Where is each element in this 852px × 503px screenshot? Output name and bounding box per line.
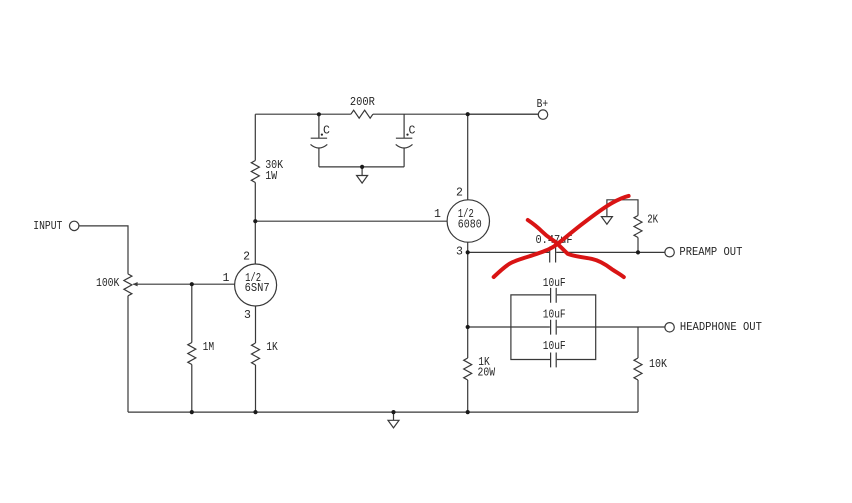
svg-text:3: 3 [244,309,251,322]
wire: top bus left segment [255,113,538,115]
red cross stroke A (lower-left to upper-right) [494,196,629,277]
resistor 1K 20W [464,358,472,380]
svg-text:B+: B+ [537,98,549,111]
svg-text:2: 2 [243,251,250,264]
svg-text:C: C [409,125,416,138]
wire: preamp out wire [468,251,665,253]
capacitor 0.47uF plates [550,247,556,263]
svg-text:2K: 2K [647,213,658,226]
wire: 2K top to ground corner [607,200,638,217]
resistor 30K 1W [251,161,259,183]
svg-text:10uF: 10uF [543,340,566,353]
resistor 1K (6SN7 cathode) [252,343,260,365]
svg-text:1: 1 [434,208,441,221]
node D (filter cap ground) [360,165,364,169]
tube U2 1/2 6080 [447,200,489,242]
resistor 200R [351,110,373,118]
svg-text:C: C [323,125,330,138]
capacitor bank box [511,295,596,360]
terminal B+ [538,110,547,119]
wire: INPUT to left vertical [79,226,128,274]
node J (1K bottom) [253,410,257,414]
node F (2K / preamp wire) [636,250,640,254]
svg-text:2: 2 [456,187,463,200]
node H (wiper / 1M top) [190,282,194,286]
node C (6SN7 plate / 30K) [253,219,257,223]
ground (bottom bus) [388,412,399,428]
svg-text:1M: 1M [203,341,215,354]
wire: cap bottom bus [319,166,404,168]
node I (1M bottom) [190,410,194,414]
wire: right cap C vertical leads [403,114,405,167]
red cross stroke B (upper-left to lower-right) [528,220,624,277]
wire: 6080 cathode down through nodes to 1K 20W [467,242,469,412]
potentiometer wiper arrow [133,282,138,286]
terminal INPUT [70,221,79,230]
wire: 6SN7 plate vertical with 30K [254,114,256,264]
wire: 6080 plate vertical [467,114,469,200]
svg-text:3: 3 [456,246,463,259]
capacitor C2 plates (flat + curved) [396,138,413,148]
wire: left cap C vertical leads [318,114,320,167]
svg-text:10uF: 10uF [543,277,566,290]
resistor 1M [188,343,196,365]
svg-text:20W: 20W [478,366,496,379]
wire: 1M resistor leads [191,284,193,412]
svg-text:1K: 1K [266,341,278,354]
node L (1K20W bottom) [466,410,470,414]
terminal PREAMP OUT [665,248,674,257]
wire: plate wire 6SN7 to 6080 pin1 [255,220,447,222]
capacitor 10uF top plates [551,288,557,303]
wire: bottom ground bus [128,411,638,413]
polarity mark right cap [406,134,408,136]
svg-text:HEADPHONE OUT: HEADPHONE OUT [680,321,762,334]
wire: 10K top lead [637,327,639,358]
wire: B+ lead [468,113,539,115]
wire: 10K bottom lead [637,380,639,412]
svg-text:1: 1 [223,272,230,285]
ground (2K top) [601,217,612,225]
resistor 10K [634,358,642,380]
node B (B+ / 6080 plate) [466,112,470,116]
wire: 6SN7 cathode to 1K to bus [255,306,257,412]
node E (6080 cathode) [466,250,470,254]
svg-text:PREAMP OUT: PREAMP OUT [679,246,742,259]
wire: 2K bottom lead [637,238,639,253]
svg-text:100K: 100K [96,277,120,290]
wire: headphone out wire [468,326,665,328]
tube U1 1/2 6SN7 [235,264,277,306]
svg-text:INPUT: INPUT [33,220,62,233]
capacitor C1 plates (flat + curved) [311,138,328,148]
wire: wiper to 6SN7 pin1 [133,283,235,285]
node A (cap C1 / top bus) [317,112,321,116]
svg-text:6080: 6080 [458,219,482,232]
svg-text:10uF: 10uF [543,309,566,322]
resistor 100K (potentiometer) [124,274,132,296]
capacitor 10uF bottom plates [551,353,557,368]
ground (filter cap midpoint) [357,167,368,183]
svg-text:6SN7: 6SN7 [245,282,270,295]
polarity mark left cap [321,134,323,136]
node G (headphone wire left) [466,325,470,329]
node K (bottom ground) [391,410,395,414]
svg-text:200R: 200R [350,96,375,109]
wire: pot bottom down to bottom bus [127,296,129,412]
svg-text:10K: 10K [649,358,667,371]
svg-text:1W: 1W [265,170,277,183]
resistor 2K [634,216,642,238]
terminal HEADPHONE OUT [665,323,674,332]
capacitor 10uF middle plates [551,320,557,335]
